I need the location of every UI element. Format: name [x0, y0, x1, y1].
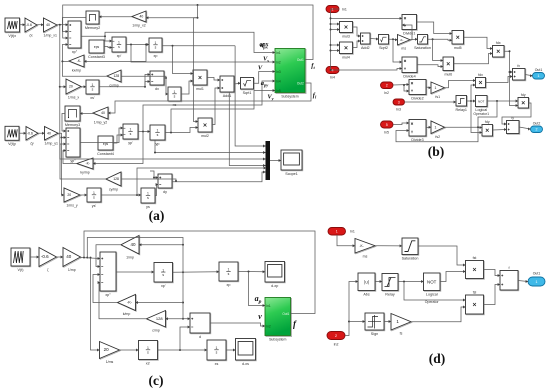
label a_px: [260, 42, 269, 50]
label V: [258, 65, 263, 72]
svg-text:Sqrt1: Sqrt1: [243, 91, 252, 95]
wire 1/ms_y to ys': [80, 194, 87, 197]
svg-text:d: d: [199, 335, 201, 339]
svg-text:20: 20: [104, 347, 110, 352]
integrator xp: [149, 38, 163, 58]
svg-text:1: 1: [216, 346, 218, 350]
svg-text:c/mp: c/mp: [152, 329, 160, 333]
svg-text:(a): (a): [149, 208, 165, 223]
svg-text:1: 1: [92, 83, 94, 87]
label Vy: [267, 94, 274, 102]
svg-text:1: 1: [336, 230, 338, 234]
sum xp'': [68, 21, 82, 54]
svg-text:s: s: [93, 196, 95, 200]
wire fy to Out2: [519, 127, 531, 131]
wire Sqrt2 to ms: [389, 38, 398, 41]
svg-text:-K-: -K-: [85, 162, 90, 166]
scope d-xp: [265, 262, 285, 288]
wire branch to 1/ms_y: [62, 138, 65, 197]
integrator xp': [112, 37, 127, 58]
svg-text:40: 40: [46, 23, 50, 27]
caption (c): [149, 373, 164, 388]
svg-text:1: 1: [155, 41, 157, 45]
svg-text:In1: In1: [342, 8, 347, 12]
svg-text:-K-: -K-: [127, 300, 133, 305]
svg-text:-K-: -K-: [359, 244, 363, 248]
gain k/mp: [118, 295, 137, 317]
integrator yp': [123, 124, 139, 145]
wire branch to kx/mp: [84, 45, 146, 63]
svg-text:xp: xp: [154, 54, 158, 58]
outport Out1 (b): [533, 68, 545, 79]
svg-text:(d): (d): [429, 351, 446, 366]
label a_py: [261, 80, 270, 88]
wire 1/mp to sum: [81, 257, 101, 261]
wire NOT to fst: [440, 270, 466, 282]
wire a_px to Subsystem In1: [105, 32, 275, 54]
gain 1/mp_y2: [93, 107, 109, 125]
svg-text:-0.6: -0.6: [41, 254, 49, 259]
svg-text:-0.6: -0.6: [27, 131, 33, 135]
wire yp to mul2: [165, 126, 198, 134]
product mul2: [198, 118, 213, 138]
svg-text:1: 1: [536, 280, 538, 284]
integrator xp' (c): [154, 263, 173, 288]
integrator xs': [86, 80, 100, 100]
svg-text:In1: In1: [350, 230, 355, 234]
wire Memory2 to sum xp'': [62, 18, 85, 34]
integrator xp (c): [219, 262, 239, 287]
svg-text:s: s: [147, 196, 149, 200]
wire to dy in1: [153, 176, 158, 179]
wire Sign to fs: [384, 320, 391, 323]
svg-text:s: s: [155, 46, 157, 50]
label a_p (c): [255, 294, 262, 305]
wire ms to Saturation: [375, 244, 402, 247]
svg-text:40: 40: [131, 242, 137, 247]
wire Add2 to Sqrt2: [370, 38, 379, 41]
svg-text:mul3: mul3: [342, 34, 350, 38]
wire to mul3 in2: [331, 28, 340, 31]
svg-text:ms: ms: [401, 47, 406, 51]
svg-text:1: 1: [174, 90, 176, 94]
gain zeta: [39, 248, 57, 273]
wire zeta to 1/mp: [57, 256, 64, 259]
wire sum xp'' to xp': [81, 35, 112, 42]
saturation Saturation (b): [414, 35, 431, 50]
svg-text:|u|: |u|: [364, 280, 369, 285]
relay Relay: [382, 274, 399, 297]
integrator yp: [150, 125, 166, 146]
svg-text:1/ms_x: 1/ms_x: [68, 96, 80, 100]
svg-text:xp°: xp°: [72, 50, 78, 54]
svg-text:ζx: ζx: [29, 34, 33, 38]
svg-text:kx/mp: kx/mp: [72, 69, 81, 73]
svg-text:fdy: fdy: [521, 93, 526, 97]
wire ys' to ys: [101, 194, 141, 197]
wire ms branch to Divide1: [402, 24, 412, 40]
wire In2 branch to Sign: [349, 320, 365, 323]
wire 1/mp_y2 to Memory3: [80, 112, 93, 115]
svg-text:1: 1: [147, 192, 149, 196]
svg-text:4: 4: [332, 68, 334, 72]
svg-text:Out1: Out1: [297, 58, 304, 62]
scope d-xs: [236, 339, 257, 366]
gain cy/mp: [106, 172, 122, 192]
integrator xs: [168, 87, 182, 107]
wire c/mp to sum: [98, 281, 147, 319]
svg-text:20: 20: [69, 85, 73, 89]
svg-text:20: 20: [67, 193, 71, 197]
wire sum yp'' to yp': [80, 127, 123, 143]
gain ms (d): [355, 239, 376, 259]
wire to mux input 4: [229, 92, 265, 167]
wire fs to fsl: [411, 306, 466, 322]
svg-text:ms: ms: [363, 255, 368, 259]
svg-text:1/mp: 1/mp: [68, 268, 76, 272]
svg-text:2: 2: [335, 334, 337, 338]
integrator ys': [87, 188, 102, 208]
memory Memory3: [65, 106, 81, 127]
svg-text:Subsystem: Subsystem: [281, 94, 298, 98]
svg-text:40: 40: [139, 15, 143, 19]
svg-text:In3: In3: [396, 108, 401, 112]
svg-text:Relay1: Relay1: [456, 108, 467, 112]
wire Constant3 to xp': [104, 46, 112, 49]
product fsl: [466, 290, 485, 314]
gain 1/mp feedback: [121, 236, 140, 260]
svg-text:Subsystem: Subsystem: [269, 337, 286, 341]
svg-text:In2: In2: [334, 343, 339, 347]
relay Relay1: [456, 96, 468, 112]
sum yp'': [66, 128, 81, 163]
svg-text:fx: fx: [517, 64, 520, 68]
sum dy: [158, 174, 173, 194]
svg-text:s: s: [130, 132, 132, 136]
svg-text:s: s: [118, 45, 120, 49]
wire f_t branch to 1/mp_x2: [146, 5, 199, 19]
source V(t): [11, 248, 31, 272]
svg-text:40: 40: [47, 131, 51, 135]
wire mul4 to Add2: [353, 40, 361, 48]
svg-text:3: 3: [398, 100, 400, 104]
wire In1 to ms: [337, 235, 355, 247]
svg-text:1/ms_y: 1/ms_y: [66, 204, 78, 208]
svg-text:1: 1: [118, 41, 120, 45]
wire V(t)y to zeta_y: [19, 132, 26, 135]
inport In2 (b): [381, 82, 394, 95]
svg-text:128: 128: [156, 316, 163, 321]
svg-text:fsl: fsl: [473, 290, 477, 294]
svg-text:V: V: [258, 65, 263, 72]
svg-text:Saturation: Saturation: [402, 256, 419, 260]
inport In1 (b): [326, 6, 347, 13]
svg-text:xs': xs': [90, 96, 95, 100]
wire f feedback loop: [84, 231, 315, 314]
wire upper loop to 1/mp feedback: [87, 238, 183, 258]
wire Saturation branch to mul6: [433, 39, 443, 62]
gain fs1: [431, 82, 445, 99]
wire branch to 1/ms: [91, 258, 100, 352]
wire V(t) to zeta: [30, 256, 39, 259]
label Vs: [263, 56, 269, 64]
gain fs2: [431, 121, 445, 139]
wire dx to xs: [164, 78, 168, 96]
product fst: [466, 256, 485, 279]
svg-text:Sqrt2: Sqrt2: [379, 46, 388, 50]
outport Out1 (d): [528, 272, 545, 287]
gain cx/mp: [107, 70, 122, 88]
node a_px: [260, 42, 269, 48]
svg-text:k/mp: k/mp: [123, 312, 131, 316]
svg-text:ys': ys': [92, 204, 97, 208]
svg-text:yp': yp': [128, 141, 133, 145]
svg-text:s: s: [174, 95, 176, 99]
gain zeta_x: [25, 18, 38, 38]
svg-text:fs2: fs2: [435, 135, 440, 139]
wire to cy/mp input: [121, 179, 177, 182]
svg-text:1/mp_y1: 1/mp_y1: [45, 142, 58, 146]
sum Add1: [220, 76, 235, 98]
wire a_p to Subsystem In1: [249, 272, 266, 308]
wire xp' to xp: [173, 270, 220, 273]
svg-text:1/mp_x2: 1/mp_x2: [132, 24, 145, 28]
wire Saturation to mul5: [428, 38, 453, 42]
wire xp' to xp: [126, 43, 149, 46]
wire dy in1 feed: [150, 171, 154, 178]
wire In4 to Divide4: [339, 67, 402, 70]
svg-text:Out1: Out1: [533, 272, 541, 276]
svg-text:-0.6: -0.6: [26, 23, 32, 27]
wire cy/mp to sum yp'': [60, 143, 106, 180]
wire to mul4 in2: [331, 49, 340, 52]
svg-text:Memory3: Memory3: [65, 123, 80, 127]
constant Constant3: [88, 40, 105, 59]
constant Constant4: [97, 136, 114, 156]
svg-text:(c): (c): [149, 373, 164, 388]
svg-text:In5: In5: [384, 131, 389, 135]
sqrt Sqrt2: [379, 35, 390, 50]
sum Add2: [361, 33, 371, 50]
wire to mul3 in1: [331, 23, 340, 26]
gain 1/mp: [63, 248, 81, 273]
subsystem Subsystem (c): [265, 298, 292, 342]
source V(t)x: [5, 18, 20, 38]
wire into 1/mp feedback: [139, 243, 184, 246]
product fdx: [493, 41, 505, 58]
svg-text:Constant3: Constant3: [88, 55, 105, 59]
wire to sum d in1: [183, 317, 190, 320]
wire mag to Divide4: [393, 39, 402, 63]
svg-text:V(t): V(t): [18, 268, 24, 272]
wire branch to sum d in2: [180, 326, 190, 351]
wire mul1 to Add1: [207, 78, 220, 82]
svg-text:ζy: ζy: [30, 142, 34, 146]
svg-text:fy: fy: [511, 116, 514, 120]
wire sum to xp': [116, 271, 154, 274]
caption (d): [429, 351, 446, 366]
wire Divide2 to fs1: [426, 86, 431, 89]
wire kx/mp to sum xp'': [61, 43, 69, 62]
label f_t: [311, 63, 315, 71]
product fdx2: [476, 73, 487, 88]
label f (c): [293, 319, 297, 329]
wire xs to mul1: [181, 80, 193, 95]
wire branch to ky/mp: [93, 132, 143, 166]
integrator xs (c): [207, 340, 227, 366]
logical operator NOT (b): [475, 96, 487, 113]
svg-text:d-xs: d-xs: [242, 362, 249, 366]
wire 1/mp_y1 to sum yp'': [58, 133, 66, 139]
svg-text:mul4: mul4: [342, 55, 350, 59]
wire fsl to f: [484, 283, 501, 305]
wire d to Subsystem In2: [210, 323, 265, 328]
svg-text:1: 1: [157, 129, 159, 133]
wire yp branch to mux input 2: [154, 140, 266, 154]
wire Vy to Subsystem In5: [171, 89, 275, 133]
svg-text:1/mp_y2: 1/mp_y2: [94, 121, 107, 125]
source V(t)y: [5, 126, 20, 146]
svg-text:xs: xs: [215, 362, 219, 366]
memory Memory2: [85, 11, 100, 30]
product mul6: [443, 57, 454, 76]
svg-text:s: s: [162, 273, 164, 277]
svg-text:Operator: Operator: [425, 300, 440, 304]
svg-text:mul2: mul2: [201, 134, 209, 138]
svg-text:Divide4: Divide4: [403, 74, 415, 78]
svg-text:Saturation: Saturation: [414, 46, 431, 50]
wire loop to Divide3 in2: [396, 127, 478, 142]
wire In2 to Abs: [345, 280, 358, 336]
svg-text:Add1: Add1: [223, 94, 232, 98]
wire fdy to fy: [502, 103, 531, 126]
svg-text:eps: eps: [94, 45, 100, 49]
sqrt Sqrt1: [241, 78, 255, 95]
wire f to Out1: [518, 280, 528, 283]
svg-text:dx: dx: [155, 87, 159, 91]
svg-text:cy/mp: cy/mp: [109, 188, 118, 192]
svg-text:Abs: Abs: [363, 292, 370, 296]
wire mul2 to Add1: [212, 87, 220, 125]
svg-text:fs: fs: [400, 332, 403, 336]
svg-text:1: 1: [130, 128, 132, 132]
svg-text:In1: In1: [266, 304, 271, 308]
svg-text:Constant4: Constant4: [97, 152, 114, 156]
svg-text:40: 40: [101, 111, 105, 115]
wire Vs to Subsystem In2: [131, 45, 275, 64]
wire 1/mp_x1 to sum xp'': [57, 23, 68, 26]
wire source branch to mux input 3: [59, 25, 266, 161]
wire Divide4 to mul6: [417, 65, 443, 68]
svg-text:Memory2: Memory2: [85, 26, 100, 30]
svg-text:yp°: yp°: [70, 159, 76, 163]
wire V(t)x to zeta_x: [20, 23, 26, 26]
wire In1 to Divide1: [331, 17, 403, 20]
wire Relay1 to NOT: [467, 100, 476, 103]
wire cx/mp feedback: [62, 61, 107, 76]
svg-text:xp': xp': [117, 54, 122, 58]
svg-text:xp: xp: [227, 283, 231, 287]
svg-text:2: 2: [536, 128, 538, 132]
gain kx/mp: [69, 55, 85, 73]
svg-text:In5: In5: [276, 89, 281, 93]
svg-text:fdy: fdy: [485, 120, 490, 124]
wire a_py to Subsystem In4: [143, 80, 275, 132]
sum d: [190, 313, 211, 339]
wire k/mp to sum: [93, 273, 118, 303]
wire In2 branch to Divide2 in2: [403, 84, 409, 93]
svg-text:Logical: Logical: [426, 293, 438, 297]
wire xp to mux input 1: [235, 46, 265, 148]
gain 1/mp_y1: [45, 127, 59, 146]
wire Relay branch to fdx2: [471, 84, 476, 102]
wire xp to d-xp: [238, 270, 265, 273]
wire to mul4 in1: [331, 44, 340, 47]
wire In1 stub: [331, 8, 340, 10]
svg-text:1: 1: [435, 125, 437, 129]
svg-text:In3: In3: [276, 70, 281, 74]
svg-text:yp: yp: [156, 142, 160, 146]
wire Abs to Relay: [375, 280, 382, 283]
outport Out2 (b): [531, 122, 543, 133]
gain ms (b): [398, 35, 411, 51]
wire Saturation to fst: [418, 246, 466, 267]
svg-text:Sign: Sign: [371, 332, 378, 336]
wire 1/mp_x2 to Memory2: [99, 15, 132, 18]
integrator ys: [141, 188, 156, 209]
wire fst to f: [484, 270, 501, 278]
wire fs2 out: [445, 126, 480, 128]
gain 1/ms: [100, 342, 121, 365]
svg-text:xp°: xp°: [105, 293, 111, 297]
wire mux to Scope1: [270, 159, 281, 162]
gain 1/mp_x1: [44, 18, 58, 38]
svg-text:In4: In4: [276, 80, 281, 84]
svg-text:s: s: [228, 272, 230, 276]
wire ys to dy: [155, 183, 158, 196]
mux Mux (a): [266, 141, 271, 180]
wire Divide1 to mul5: [417, 22, 453, 35]
sum fx: [513, 69, 526, 81]
svg-text:s: s: [147, 351, 149, 355]
svg-text:v: v: [258, 312, 262, 321]
wire ms to Saturation: [410, 38, 418, 41]
wire xs to d-xs: [226, 349, 236, 352]
svg-text:mul6: mul6: [444, 72, 452, 76]
svg-text:mul1: mul1: [196, 87, 204, 91]
product mul4: [340, 42, 354, 59]
wire to cx/mp input: [121, 76, 167, 79]
svg-text:Divide1: Divide1: [403, 31, 415, 35]
wire fs1 to fdx2: [445, 79, 476, 88]
svg-text:Scope1: Scope1: [285, 172, 298, 176]
wire f_l feedback Out2 to 1/mp_y2: [108, 83, 311, 115]
wire zeta_y to 1/mp_y1: [38, 132, 45, 135]
divide Divide3: [409, 120, 427, 142]
wire 1/ms_x to xs': [81, 85, 86, 88]
svg-text:In2: In2: [384, 91, 389, 95]
product mul5: [452, 31, 464, 50]
wire mul6 to fdx: [454, 52, 493, 64]
svg-text:Out1: Out1: [535, 68, 543, 72]
wire fdy2 to fy: [493, 128, 507, 131]
wire yp' to yp: [138, 130, 150, 133]
gain c/mp: [147, 311, 167, 333]
inport In2 (d): [327, 332, 345, 347]
svg-text:Out1: Out1: [282, 312, 289, 316]
divide Divide2: [409, 80, 427, 101]
wire to c/mp: [166, 317, 184, 320]
